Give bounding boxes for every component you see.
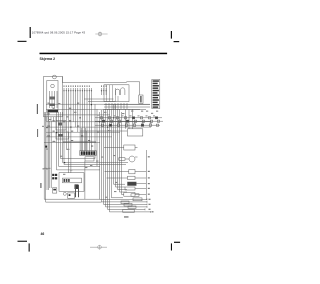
fuse box cell strip: [63, 178, 82, 183]
starter motor M1: [63, 192, 66, 195]
junction dots: [46, 104, 114, 163]
label box N1: [139, 95, 143, 104]
svg-text:Skjema 2: Skjema 2: [40, 57, 56, 61]
junction box J1: [104, 85, 129, 102]
box below fuse strip: [85, 157, 94, 161]
terminal cluster left: [52, 174, 57, 180]
title text Skjema 2: [40, 57, 56, 61]
motor M2 circle: [119, 156, 138, 162]
bottom sensor symbols: [121, 194, 142, 213]
page number 46: [41, 232, 45, 236]
left margin label: [37, 104, 38, 114]
registration mark top: [95, 32, 107, 37]
connector row CN1 pins: [64, 88, 106, 95]
sensor B1 box: [124, 145, 138, 150]
crop mark top-left horizontal: [18, 41, 27, 42]
title rule: [40, 53, 168, 55]
wire colour legend table: [152, 80, 160, 109]
component box under splices: [127, 129, 142, 136]
switch contacts: [50, 91, 58, 108]
relay block K1: [56, 121, 66, 131]
header filename text: [32, 30, 86, 34]
relay block K2: [56, 132, 69, 139]
splice chain row 3: [95, 124, 160, 126]
splice chain row 1: [95, 117, 162, 119]
ignition switch unit S1 outer box: [44, 76, 63, 116]
fuse strip frame: [80, 151, 97, 156]
harness bundle verticals: [100, 104, 122, 212]
bottom row end ticks: [145, 199, 151, 213]
connector row CN1 pin labels: [64, 86, 107, 87]
crop mark bottom-right vertical: [171, 243, 172, 250]
crop mark top-right horizontal: [174, 41, 180, 42]
svg-text:46: 46: [41, 232, 45, 236]
horizontal feed wires: [44, 104, 151, 142]
switch terminal row: [48, 110, 59, 112]
top bus wire: [62, 76, 139, 95]
ignition switch unit S1 inner box: [47, 81, 58, 113]
switch rotor circle: [51, 84, 55, 88]
verticals feeding component box: [126, 110, 133, 129]
junction dots left: [45, 146, 47, 148]
svg-text:1078964.qxd 08.06.2005 15:17: 1078964.qxd 08.06.2005 15:17 Page 43: [32, 30, 86, 34]
relay connector block: [75, 184, 79, 197]
registration mark bottom: [90, 245, 107, 250]
splice row labels: [114, 115, 156, 123]
left vertical harness wires: [44, 112, 51, 202]
crop mark bottom-left horizontal: [18, 241, 28, 242]
connector row CN1 pin arrows: [63, 90, 107, 92]
splice chain row 2: [95, 120, 163, 122]
right boundary wire: [146, 150, 148, 200]
branch wires x95 x97: [95, 104, 97, 166]
mid-left stub labels: [43, 103, 100, 170]
terminal ticks below unit: [46, 117, 56, 121]
crop mark top-right vertical: [171, 31, 172, 39]
ignition key circle: [53, 75, 57, 79]
crop mark bottom-left vertical: [29, 243, 30, 251]
crop mark bottom-right horizontal: [174, 242, 180, 243]
small unit with dot: [68, 193, 75, 198]
left margin label 2: [40, 183, 41, 188]
crop mark top-left vertical: [30, 27, 31, 38]
header print-prep marks: [18, 27, 180, 42]
labels under legend: [141, 111, 158, 114]
wire loops in J1: [116, 88, 125, 95]
fuse box A1 outer: [59, 173, 84, 192]
long buses to right: [57, 99, 129, 170]
centre crossing verticals: [81, 128, 87, 199]
sensor stack leads: [135, 172, 146, 195]
bus wires right of CN2: [104, 105, 150, 110]
connector row CN2 under J1: [106, 103, 127, 109]
bottom harness turns: [44, 199, 150, 212]
centre vertical wires from switch: [57, 95, 92, 173]
footer marks: [18, 232, 181, 252]
scattered wire code labels: [42, 103, 133, 198]
left margin label 3: [37, 129, 38, 137]
sensor stack right column: [124, 170, 136, 197]
sensor lead labels: [124, 156, 154, 217]
sensor row wires right: [104, 148, 129, 198]
fuse strip F: [81, 151, 96, 155]
battery G1: [53, 188, 57, 193]
